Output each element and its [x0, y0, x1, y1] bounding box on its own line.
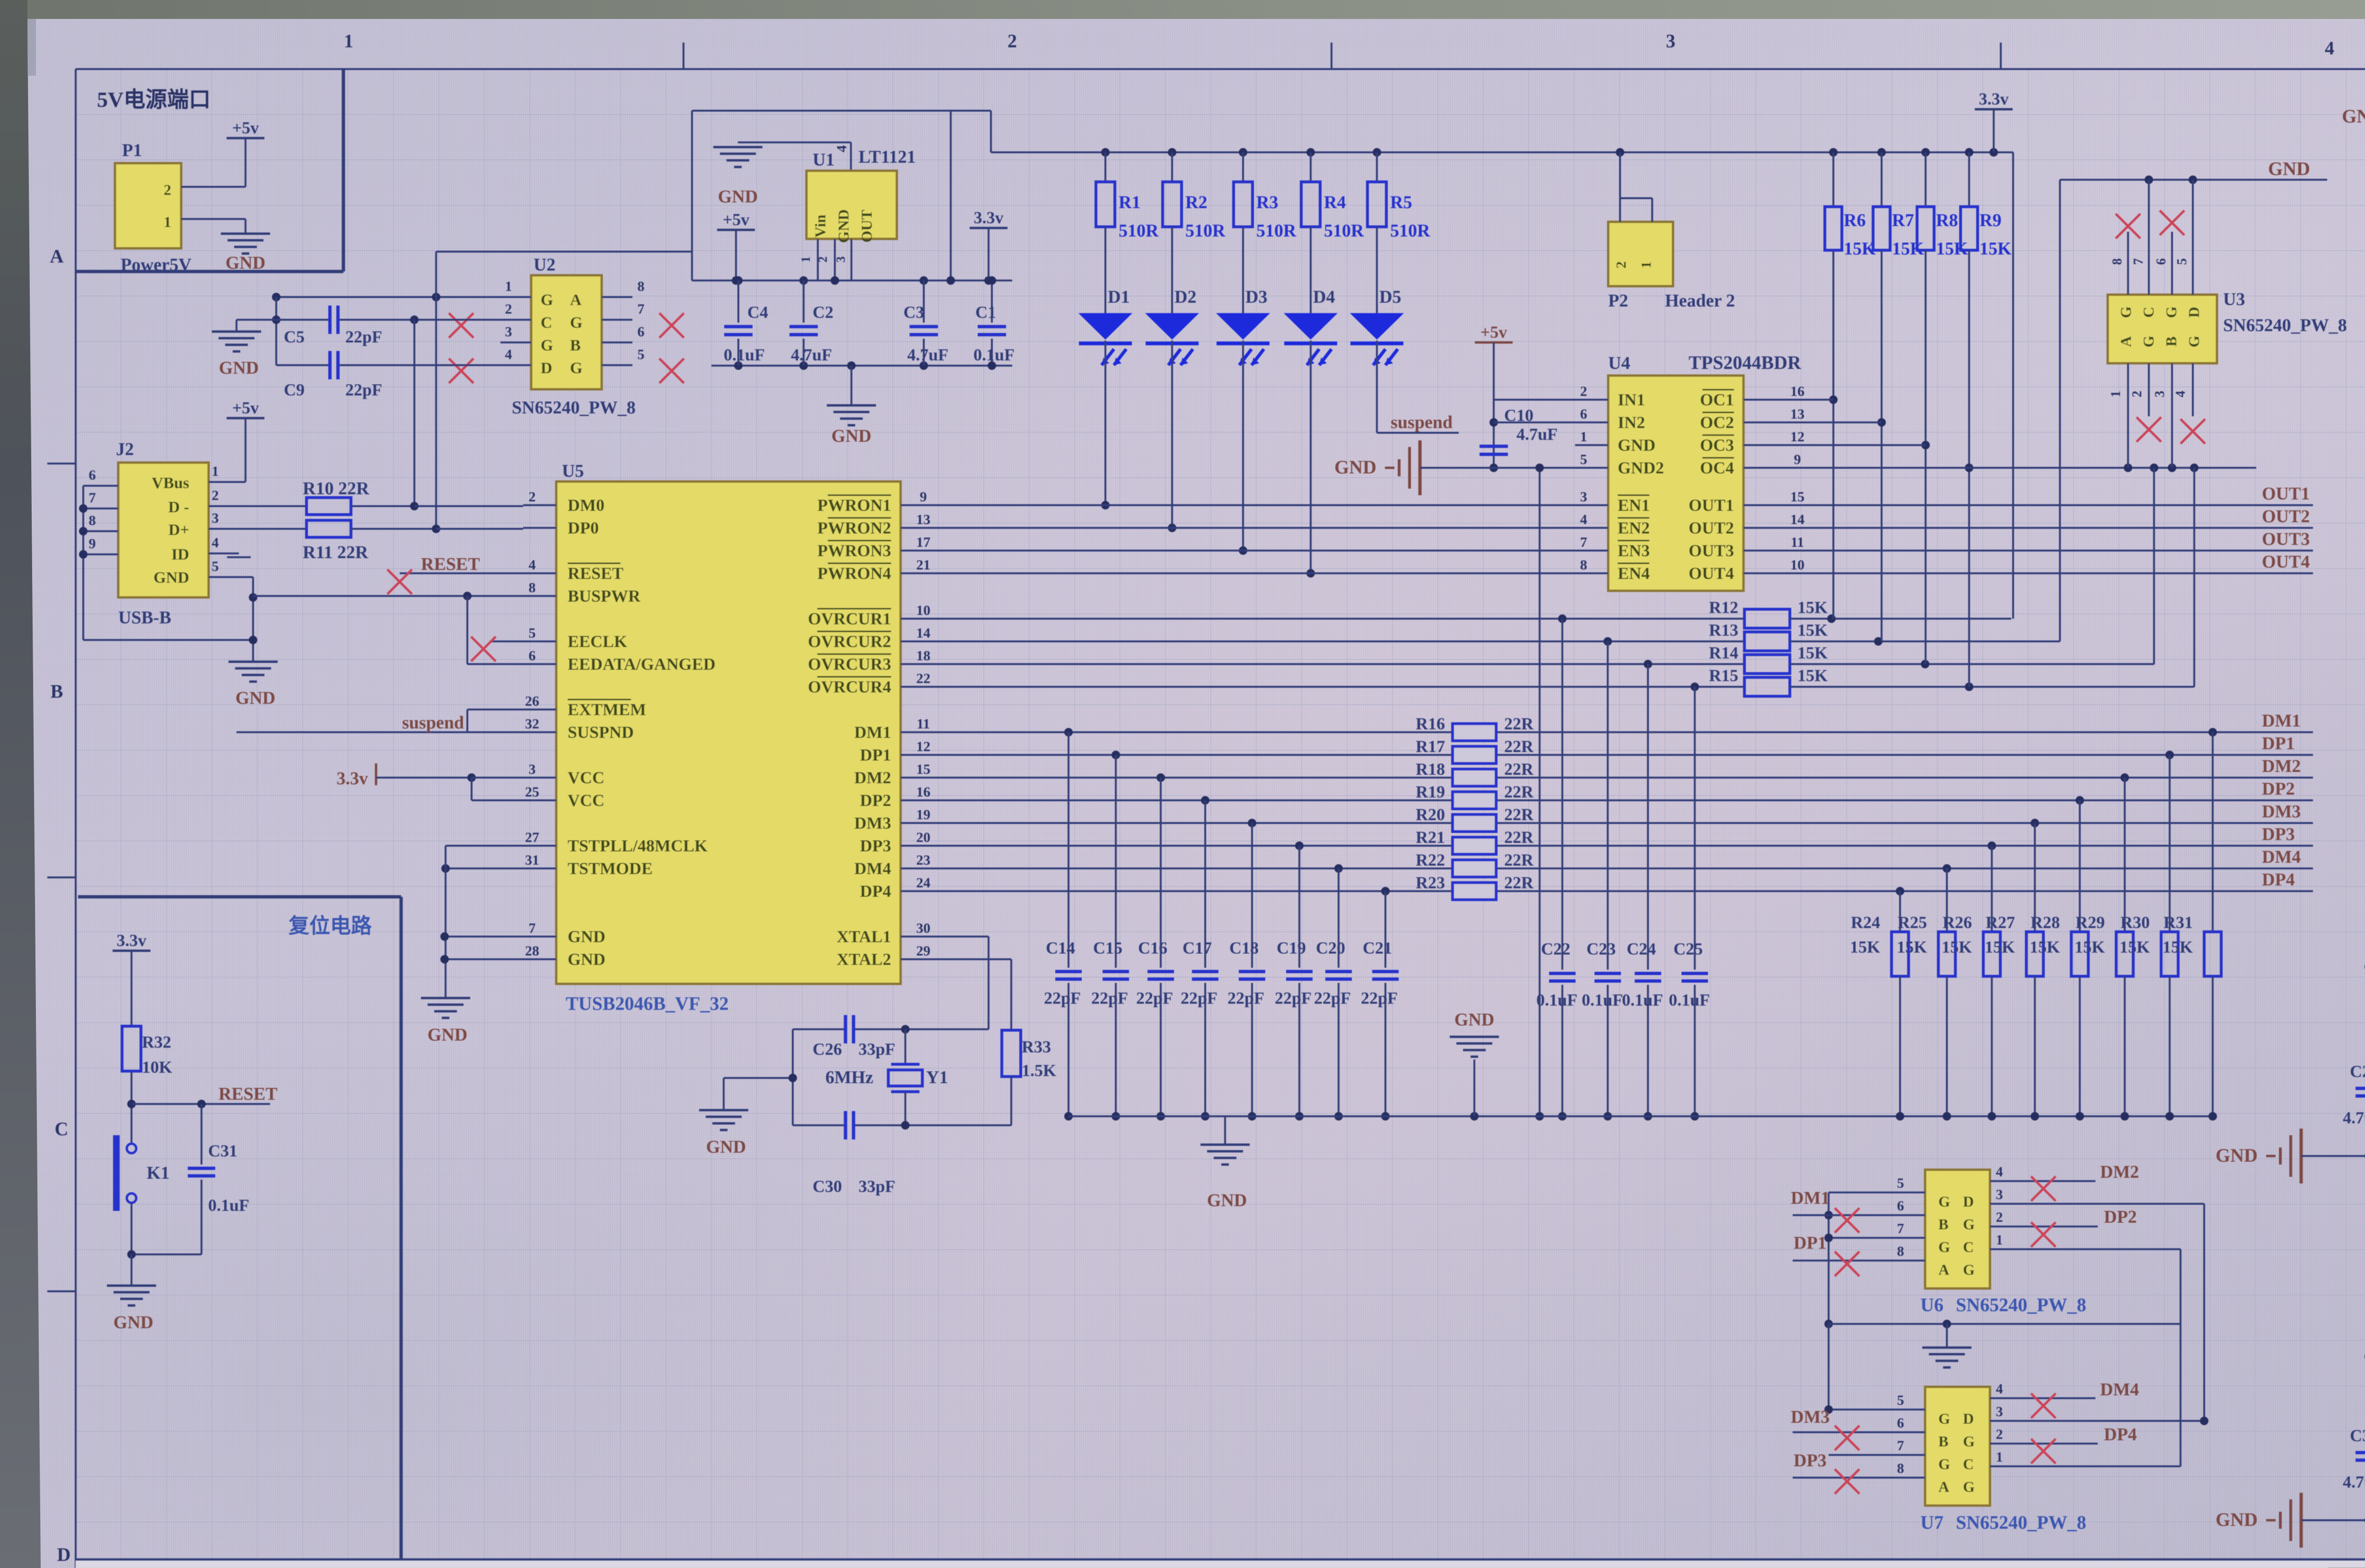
svg-text:4: 4 — [529, 557, 536, 573]
wire U2 pin1 net — [272, 293, 500, 365]
svg-text:4: 4 — [834, 145, 850, 152]
svg-text:15K: 15K — [1797, 598, 1828, 617]
wire DM1 net — [934, 711, 2313, 736]
wire BUSPWR net — [253, 592, 523, 600]
svg-text:15K: 15K — [1985, 937, 2015, 956]
reset section box — [78, 897, 401, 1568]
svg-text:D1: D1 — [1108, 287, 1130, 307]
svg-text:R10 22R: R10 22R — [303, 479, 369, 499]
svg-text:suspend: suspend — [402, 713, 464, 733]
svg-text:R24: R24 — [1851, 913, 1880, 932]
svg-text:R20: R20 — [1416, 805, 1445, 824]
svg-text:1: 1 — [505, 279, 512, 294]
svg-text:C: C — [55, 1118, 69, 1139]
svg-text:8: 8 — [1580, 557, 1587, 573]
svg-text:C1: C1 — [975, 303, 996, 322]
capacitor C32 4.7uF — [2343, 1412, 2365, 1520]
svg-text:Power5V: Power5V — [121, 255, 192, 275]
wire DM4 net — [934, 847, 2313, 873]
svg-text:6MHz: 6MHz — [825, 1068, 873, 1087]
wire PWRON4 net — [934, 572, 1575, 574]
svg-text:C15: C15 — [1093, 938, 1122, 957]
svg-text:G: G — [570, 359, 582, 377]
svg-text:RESET: RESET — [421, 554, 480, 574]
wire cap bottom rail C27 — [2319, 1152, 2365, 1160]
svg-text:C: C — [1963, 1238, 1974, 1255]
svg-text:OUT4: OUT4 — [1689, 564, 1734, 583]
svg-text:GND: GND — [2216, 1145, 2258, 1166]
svg-text:DM4: DM4 — [2100, 1380, 2139, 1400]
ground GND reset — [107, 1254, 156, 1332]
svg-text:2: 2 — [2130, 391, 2145, 397]
wire U6 pin7 — [1824, 1234, 1892, 1242]
svg-text:2: 2 — [1996, 1427, 2003, 1442]
svg-text:A: A — [1938, 1261, 1949, 1278]
svg-text:10: 10 — [916, 603, 930, 618]
capacitor C27 4.7uF — [2343, 1048, 2365, 1156]
svg-text:EN2: EN2 — [1618, 518, 1650, 537]
resistor R18 22R — [1416, 760, 1534, 786]
svg-text:29: 29 — [916, 943, 930, 959]
LED D3 — [1216, 287, 1270, 555]
svg-text:A: A — [1938, 1478, 1949, 1495]
svg-text:DP1: DP1 — [860, 745, 891, 764]
transceiver U6 SN65240_PW_8 — [1920, 1170, 2086, 1315]
wire DM3 net — [934, 802, 2313, 827]
capacitor C3 4.7uF — [903, 280, 948, 366]
svg-text:3: 3 — [2153, 391, 2167, 397]
svg-text:1: 1 — [212, 464, 219, 479]
svg-text:GND: GND — [1454, 1010, 1494, 1030]
svg-text:TUSB2046B_VF_32: TUSB2046B_VF_32 — [566, 993, 729, 1014]
svg-text:D: D — [1963, 1193, 1974, 1210]
wire DP2 net — [934, 779, 2313, 805]
svg-text:suspend: suspend — [1391, 412, 1453, 432]
svg-text:4: 4 — [1996, 1381, 2003, 1397]
power port 3.3v at pullup rail — [1975, 89, 2013, 152]
capacitor C26 33pF — [813, 1015, 895, 1059]
svg-text:Y1: Y1 — [926, 1068, 948, 1087]
svg-text:5: 5 — [638, 347, 645, 362]
svg-text:5: 5 — [1897, 1393, 1904, 1408]
svg-text:VCC: VCC — [568, 768, 604, 787]
J2 left pin bracket — [79, 467, 253, 640]
U4 right pin stubs — [1743, 384, 1804, 573]
svg-text:U5: U5 — [562, 461, 584, 481]
svg-text:XTAL1: XTAL1 — [837, 927, 891, 946]
svg-text:25: 25 — [525, 784, 539, 800]
wire OC1 net — [1783, 399, 1833, 401]
svg-text:10K: 10K — [142, 1058, 172, 1077]
ground GND drop to rail — [1450, 1010, 1499, 1116]
switch K1 — [116, 1135, 170, 1254]
svg-text:G: G — [2185, 335, 2202, 347]
svg-text:U7: U7 — [1920, 1512, 1944, 1533]
U5 left pin names — [568, 496, 716, 969]
svg-text:7: 7 — [89, 490, 96, 506]
svg-text:OVRCUR3: OVRCUR3 — [808, 655, 891, 674]
svg-text:5: 5 — [212, 559, 219, 574]
junction dots OC rows — [1829, 395, 1973, 472]
U5 right pin names — [808, 495, 891, 969]
svg-text:RESET: RESET — [219, 1084, 278, 1104]
svg-text:D2: D2 — [1174, 287, 1196, 307]
svg-text:2: 2 — [1996, 1209, 2003, 1225]
svg-text:XTAL2: XTAL2 — [837, 950, 891, 969]
svg-text:12: 12 — [1790, 429, 1804, 445]
svg-text:EN1: EN1 — [1618, 496, 1650, 515]
net label suspend at U5 — [402, 713, 464, 733]
svg-text:32: 32 — [525, 716, 539, 732]
svg-text:OC1: OC1 — [1700, 390, 1734, 409]
svg-text:R22: R22 — [1416, 850, 1445, 869]
resistor R24 15K — [1850, 891, 1909, 1121]
svg-text:0.1uF: 0.1uF — [973, 345, 1015, 364]
wire OVRCUR1 net with resistor R12 15K — [0, 0, 2011, 628]
svg-text:15K: 15K — [1797, 621, 1828, 639]
svg-text:+5v: +5v — [232, 398, 259, 417]
svg-text:DP4: DP4 — [2262, 870, 2295, 890]
svg-text:U4: U4 — [1608, 353, 1630, 373]
capacitor C30 33pF — [813, 1111, 895, 1196]
wire OUT4 to caps — [2365, 1352, 2365, 1412]
resistor R23 22R — [1416, 873, 1534, 900]
wire OVRCUR1 riser — [2012, 152, 2014, 619]
svg-text:G: G — [1963, 1433, 1975, 1450]
svg-text:510R: 510R — [1119, 221, 1159, 241]
svg-text:1.5K: 1.5K — [1022, 1061, 1056, 1080]
svg-text:TPS2044BDR: TPS2044BDR — [1689, 352, 1802, 373]
ground GND on main rail — [1200, 1116, 1250, 1210]
svg-text:OUT2: OUT2 — [2262, 507, 2310, 526]
title block region — [76, 1559, 2365, 1568]
svg-text:28: 28 — [525, 943, 539, 959]
svg-text:15K: 15K — [1844, 239, 1876, 259]
svg-text:DP2: DP2 — [2104, 1207, 2137, 1227]
svg-text:R7: R7 — [1892, 210, 1914, 230]
wire OUT2 net — [1783, 507, 2313, 528]
svg-text:DP3: DP3 — [2262, 824, 2295, 844]
svg-text:14: 14 — [1790, 512, 1804, 527]
resistor R11 22R — [239, 520, 523, 562]
svg-text:+5v: +5v — [1480, 323, 1507, 342]
svg-text:510R: 510R — [1390, 221, 1430, 241]
svg-text:C18: C18 — [1229, 938, 1259, 957]
wire U4 IN rows — [1494, 400, 1575, 422]
wire GND net above U3 — [2060, 175, 2327, 641]
wire U6 pin1 — [2023, 1249, 2181, 1324]
svg-text:C17: C17 — [1182, 938, 1212, 957]
resistor R22 22R — [1416, 850, 1534, 877]
svg-text:EXTMEM: EXTMEM — [568, 700, 646, 719]
svg-text:DM2: DM2 — [2100, 1162, 2139, 1182]
transceiver U3 SN65240_PW_8 — [2108, 289, 2347, 363]
section title fu wei dian lu — [289, 914, 372, 937]
svg-text:GND: GND — [236, 688, 275, 708]
resistor R2 510R — [1163, 152, 1226, 313]
resistor R32 10K — [122, 1026, 172, 1145]
svg-text:22pF: 22pF — [1227, 989, 1264, 1007]
no-ERC marks below U3 — [2137, 417, 2205, 444]
U5 left pin stubs — [523, 489, 556, 959]
svg-text:4: 4 — [2325, 37, 2334, 59]
svg-text:OVRCUR2: OVRCUR2 — [808, 632, 891, 651]
svg-text:8: 8 — [529, 580, 536, 596]
capacitor C10 4.7uF — [1480, 406, 1558, 455]
wire U6 pin3 — [2023, 1204, 2204, 1421]
svg-text:22pF: 22pF — [1181, 989, 1218, 1007]
svg-text:D5: D5 — [1379, 287, 1401, 307]
power port +5v at U4 — [1475, 323, 1513, 472]
svg-text:DP2: DP2 — [860, 791, 891, 810]
capacitor C2 4.7uF — [789, 280, 833, 366]
resistor R25 15K — [1897, 868, 1955, 1121]
svg-text:G: G — [541, 337, 553, 354]
svg-text:6: 6 — [1897, 1198, 1904, 1214]
svg-text:3: 3 — [1996, 1404, 2003, 1419]
svg-text:4.7uF: 4.7uF — [2343, 1472, 2365, 1491]
svg-text:1: 1 — [1580, 429, 1587, 445]
svg-text:D: D — [2185, 307, 2202, 317]
svg-text:2: 2 — [1007, 30, 1017, 52]
svg-text:R15: R15 — [1709, 666, 1738, 685]
wire U7 pin7 — [1829, 1454, 1892, 1456]
svg-text:20: 20 — [916, 830, 930, 845]
wire crystal bottom rail — [793, 1029, 1011, 1130]
wire TSTPLL TSTMODE bracket — [441, 846, 523, 998]
svg-text:TSTMODE: TSTMODE — [568, 859, 653, 878]
U4 right pin names — [1689, 390, 1734, 583]
svg-text:6: 6 — [529, 648, 536, 664]
svg-text:J2: J2 — [116, 439, 134, 459]
svg-text:1: 1 — [164, 213, 171, 230]
svg-text:复位电路: 复位电路 — [289, 914, 372, 937]
svg-text:A: A — [2117, 336, 2134, 347]
svg-text:C27: C27 — [2350, 1062, 2365, 1081]
svg-text:8: 8 — [1897, 1461, 1904, 1476]
svg-text:13: 13 — [1790, 406, 1804, 422]
svg-text:SN65240_PW_8: SN65240_PW_8 — [1956, 1294, 2086, 1315]
svg-text:B: B — [570, 337, 581, 354]
resistor R30 15K — [2120, 755, 2178, 1121]
svg-text:GND: GND — [219, 358, 259, 378]
svg-text:C30: C30 — [813, 1177, 842, 1196]
svg-text:OC4: OC4 — [1700, 458, 1734, 477]
wire DP1 net — [934, 734, 2313, 759]
svg-text:22R: 22R — [1504, 714, 1534, 733]
wire rail above U2 — [436, 251, 692, 253]
svg-text:GND: GND — [2216, 1509, 2258, 1530]
LED D1 — [1078, 287, 1132, 509]
net label GND above U3 — [2268, 158, 2310, 179]
hub controller U5 TUSB2046B_VF_32 — [556, 461, 901, 1014]
net label RESET at U5 — [387, 554, 523, 594]
svg-text:31: 31 — [525, 852, 539, 868]
svg-text:2: 2 — [212, 488, 219, 503]
svg-text:DM1: DM1 — [1791, 1188, 1830, 1208]
wire PWRON3 net — [934, 550, 1575, 552]
svg-text:R31: R31 — [2164, 913, 2193, 932]
svg-text:22pF: 22pF — [1361, 989, 1398, 1007]
svg-text:G: G — [1938, 1193, 1950, 1210]
svg-text:GND: GND — [568, 927, 605, 946]
svg-text:RESET: RESET — [568, 564, 623, 583]
svg-text:26: 26 — [525, 693, 539, 709]
svg-text:IN2: IN2 — [1618, 413, 1645, 432]
svg-text:7: 7 — [1897, 1221, 1904, 1236]
wire U5 GND pins — [440, 932, 523, 964]
wire U7 pin1 — [2023, 1324, 2181, 1466]
ground GND-bar at C32 — [2216, 1493, 2319, 1548]
svg-text:GND: GND — [1334, 456, 1376, 478]
svg-text:R14: R14 — [1709, 643, 1738, 662]
svg-text:0.1uF: 0.1uF — [1536, 990, 1577, 1009]
svg-text:C: C — [541, 314, 552, 332]
svg-text:GND: GND — [568, 950, 605, 969]
svg-text:PWRON2: PWRON2 — [817, 518, 891, 537]
svg-text:C23: C23 — [1586, 939, 1616, 958]
svg-text:C32: C32 — [2350, 1426, 2365, 1445]
svg-text:C20: C20 — [1316, 938, 1345, 957]
ground GND left of crystal — [699, 1074, 797, 1157]
svg-text:3.3v: 3.3v — [117, 931, 147, 950]
svg-text:3: 3 — [212, 510, 219, 526]
svg-text:4.7uF: 4.7uF — [791, 345, 832, 364]
svg-text:OC3: OC3 — [1700, 436, 1734, 455]
svg-text:22pF: 22pF — [1091, 989, 1128, 1007]
wire U2 to R10 vertical — [414, 252, 436, 529]
svg-text:3: 3 — [505, 324, 512, 340]
junction dots OVRCUR rows — [1558, 614, 1973, 691]
wire XTAL2 net — [901, 959, 1011, 1030]
wire DM0 net — [414, 505, 523, 507]
svg-text:6: 6 — [638, 324, 645, 340]
capacitor C14 22pF — [1044, 732, 1082, 1121]
wire OVRCUR3 riser — [2153, 468, 2155, 664]
transceiver U7 SN65240_PW_8 — [1920, 1387, 2086, 1533]
wire DP3 net — [934, 824, 2313, 850]
svg-text:2: 2 — [1580, 384, 1587, 399]
svg-text:R12: R12 — [1709, 598, 1738, 617]
net label suspend at D5 — [1377, 412, 1459, 433]
svg-text:GND: GND — [718, 187, 758, 207]
capacitor C25 0.1uF — [1669, 687, 1710, 1121]
svg-text:1: 1 — [1996, 1449, 2003, 1465]
svg-text:4: 4 — [212, 535, 219, 551]
svg-text:R9: R9 — [1980, 210, 2001, 230]
capacitor C23 0.1uF — [1582, 641, 1623, 1121]
svg-text:SN65240_PW_8: SN65240_PW_8 — [1956, 1512, 2086, 1533]
net label DM3 at U7 — [1791, 1407, 1892, 1450]
svg-text:10: 10 — [1790, 557, 1804, 573]
svg-text:OVRCUR4: OVRCUR4 — [808, 677, 891, 696]
ground GND above U1 — [713, 142, 851, 207]
svg-text:C21: C21 — [1363, 938, 1392, 957]
svg-text:9: 9 — [89, 536, 96, 552]
svg-text:11: 11 — [1791, 534, 1804, 550]
svg-text:22R: 22R — [1504, 805, 1534, 824]
ground GND-bar at U4 — [1334, 440, 1575, 495]
wire EEDATA net — [467, 596, 523, 664]
svg-text:ID: ID — [171, 546, 189, 563]
capacitor C22 0.1uF — [1536, 619, 1577, 1121]
svg-text:2: 2 — [1613, 262, 1629, 269]
svg-text:R23: R23 — [1416, 873, 1445, 892]
5V power section box — [76, 69, 343, 272]
svg-text:22R: 22R — [1504, 828, 1534, 847]
svg-text:R26: R26 — [1943, 913, 1972, 932]
svg-text:1: 1 — [1996, 1232, 2003, 1248]
svg-text:6: 6 — [1580, 406, 1587, 422]
svg-text:GND: GND — [2268, 158, 2310, 179]
svg-text:PWRON3: PWRON3 — [817, 541, 891, 560]
svg-text:R28: R28 — [2031, 913, 2060, 932]
svg-text:G: G — [1938, 1410, 1950, 1427]
svg-text:R6: R6 — [1844, 210, 1866, 230]
svg-text:3: 3 — [1996, 1187, 2003, 1202]
wire OUT3 net — [1783, 529, 2313, 551]
svg-text:DM4: DM4 — [2262, 847, 2301, 867]
resistor R28 15K — [2030, 800, 2088, 1121]
capacitor C17 22pF — [1181, 800, 1218, 1121]
svg-text:LT1121: LT1121 — [858, 147, 916, 167]
svg-text:4.7uF: 4.7uF — [2343, 1108, 2365, 1127]
connector P2 Header 2 — [1608, 152, 1735, 311]
U7 right pin stubs — [1990, 1381, 2023, 1466]
svg-text:C16: C16 — [1138, 938, 1167, 957]
svg-text:C19: C19 — [1277, 938, 1306, 957]
svg-text:22pF: 22pF — [1275, 989, 1312, 1007]
svg-text:GND2: GND2 — [1618, 458, 1664, 477]
svg-text:C: C — [1963, 1455, 1974, 1472]
svg-text:15: 15 — [1790, 489, 1804, 505]
svg-text:Vin: Vin — [812, 214, 829, 237]
svg-text:TSTPLL/48MCLK: TSTPLL/48MCLK — [568, 836, 708, 855]
svg-text:GND: GND — [114, 1313, 153, 1332]
svg-text:R29: R29 — [2076, 913, 2105, 932]
svg-text:510R: 510R — [1185, 221, 1226, 241]
svg-text:27: 27 — [525, 830, 539, 845]
svg-text:12: 12 — [916, 739, 930, 754]
svg-text:A: A — [570, 291, 582, 309]
svg-text:B: B — [2163, 336, 2180, 346]
svg-text:GND: GND — [428, 1025, 467, 1045]
svg-text:C3: C3 — [903, 303, 924, 322]
svg-text:G: G — [1938, 1238, 1950, 1255]
svg-text:18: 18 — [916, 648, 930, 664]
svg-text:D: D — [1963, 1410, 1974, 1427]
capacitor C31 0.1uF — [188, 1104, 249, 1254]
svg-text:24: 24 — [916, 875, 930, 891]
wire OC2 net — [1783, 421, 1882, 423]
svg-text:R30: R30 — [2120, 913, 2150, 932]
svg-text:5V电源端口: 5V电源端口 — [97, 88, 210, 112]
svg-text:4.7uF: 4.7uF — [907, 345, 948, 364]
svg-text:4.7uF: 4.7uF — [1516, 425, 1558, 444]
wire OC3 net — [1783, 444, 1926, 446]
svg-text:R21: R21 — [1416, 828, 1445, 847]
U3 top pin stubs — [2110, 180, 2193, 295]
svg-text:15K: 15K — [2075, 937, 2105, 956]
svg-text:22pF: 22pF — [345, 327, 382, 346]
J2 right pin stubs — [209, 464, 251, 577]
wire U6 left bracket — [1824, 1192, 1892, 1328]
wire XTAL1 net — [793, 937, 989, 1034]
svg-text:D4: D4 — [1313, 287, 1335, 307]
wire OVRCUR3 net with resistor R14 15K — [0, 0, 2154, 674]
svg-text:8: 8 — [2110, 258, 2125, 265]
svg-text:2: 2 — [816, 256, 830, 263]
